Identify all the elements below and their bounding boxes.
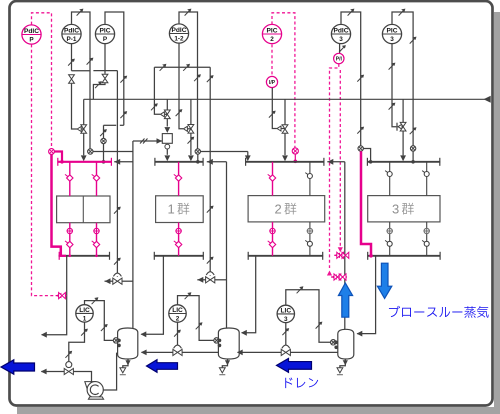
signal PdIC/3 bracket <box>341 12 361 146</box>
signal PIC/P bracket <box>104 12 124 138</box>
magenta steam path left A <box>52 154 61 255</box>
cap b2L <box>247 252 249 260</box>
controller PIC/2 <box>262 24 281 43</box>
hot drop 2 <box>268 162 276 196</box>
slash s24 <box>114 258 121 265</box>
slash s35 <box>282 328 289 335</box>
cold drop P-b <box>92 223 100 256</box>
main line end arrow <box>484 96 491 103</box>
slash s29 <box>65 351 72 358</box>
cap b3L <box>367 252 369 260</box>
drop b-right <box>209 67 211 99</box>
arrow onto header0 <box>81 155 87 161</box>
flash vessel T1 <box>118 328 138 359</box>
controller PIC/P <box>95 24 114 43</box>
arrow bp3 <box>328 159 334 165</box>
drop onto header2 <box>247 152 249 157</box>
label 1-gun <box>168 202 190 217</box>
signal I/P down <box>272 88 277 129</box>
arrow BV2 <box>198 277 204 283</box>
slash s11 <box>269 111 276 118</box>
controller PdIC/3 <box>331 24 350 43</box>
line X3 to header <box>103 144 105 162</box>
bottom header1 <box>154 255 204 257</box>
cold drop 1 <box>174 223 182 256</box>
slash s15 <box>339 45 346 52</box>
out LIC3 <box>285 323 287 346</box>
arrow onto header3 <box>400 155 406 161</box>
svg-text:LIC: LIC <box>79 307 90 314</box>
svg-text:1-2: 1-2 <box>174 36 184 43</box>
line PdIC/1-2 down <box>178 43 180 99</box>
pipe X6 to header3 <box>363 149 370 162</box>
magenta steam path left B <box>54 152 62 162</box>
cap h2L <box>245 158 247 166</box>
drop to header0 <box>83 134 85 156</box>
valve LV3 <box>281 345 290 355</box>
header0 magenta <box>57 161 111 163</box>
arrow into pot <box>157 138 163 144</box>
cap b1L <box>153 252 155 260</box>
controller PIC/3 <box>382 24 401 43</box>
signal PdIC/P bottom dashed <box>32 44 54 295</box>
arrow into v3 <box>357 331 363 337</box>
converter I/P <box>266 76 277 87</box>
orifice X4 <box>195 149 200 154</box>
signal PIC/3 down <box>392 44 396 127</box>
stub g1b <box>188 128 191 130</box>
out LIC1 <box>69 322 85 361</box>
junction j1 <box>102 160 106 164</box>
svg-text:P: P <box>103 36 108 43</box>
riser to vessel2 <box>226 162 228 328</box>
svg-text:LIC: LIC <box>172 307 183 314</box>
blue arrow down <box>377 263 391 298</box>
link BV2 riser <box>215 279 227 281</box>
controller LIC/3 <box>277 305 294 323</box>
positioner X5 magenta <box>292 148 298 154</box>
hot drop 2k <box>305 162 312 196</box>
link BV1 riser <box>122 280 133 282</box>
orifice X6 <box>358 146 363 151</box>
cold drop 3a <box>385 222 392 256</box>
header2 <box>245 161 324 163</box>
converter P/I <box>334 53 344 63</box>
label 2-gun <box>275 202 297 217</box>
valve CV0 <box>81 125 87 134</box>
slash s14 <box>357 127 364 134</box>
arrow into v2b <box>237 350 243 356</box>
line to elbow0 <box>72 84 78 129</box>
flash vessel T2 <box>218 328 239 359</box>
pot outlet circle <box>165 144 170 149</box>
svg-text:2: 2 <box>270 36 274 43</box>
svg-text:PIC: PIC <box>100 27 111 34</box>
svg-text:PdIC: PdIC <box>171 27 186 34</box>
svg-text:3: 3 <box>392 202 399 217</box>
valve CV1b <box>188 125 194 134</box>
steam drop group0 <box>83 99 85 124</box>
junction bh0a <box>69 255 72 258</box>
cap h0R <box>110 158 112 166</box>
sense LIC3 <box>286 290 331 343</box>
blue arrow exit left <box>1 360 35 374</box>
slash s18 <box>389 63 396 70</box>
sense LIC1 <box>85 301 114 341</box>
arrow drain <box>41 369 47 375</box>
valve CV3 <box>400 122 406 131</box>
riser to vessel3 <box>344 162 346 329</box>
slash s22 <box>176 109 183 116</box>
exchanger box 2 <box>248 196 325 222</box>
junction j5 <box>411 160 415 164</box>
slash s9 <box>183 64 190 71</box>
slash s30 <box>185 292 192 299</box>
stub g1a <box>165 113 168 115</box>
signal PIC/3 bracket <box>392 12 413 146</box>
blue arrow up <box>338 283 352 317</box>
exchanger box 3 <box>368 196 440 222</box>
bypass stub v2 <box>207 161 227 163</box>
out LIC2 <box>177 322 179 345</box>
slash s17b <box>410 37 417 44</box>
controller LIC/1 <box>76 305 93 323</box>
slash s4b <box>120 111 127 118</box>
svg-text:PdIC: PdIC <box>24 28 39 35</box>
v2 blowdown <box>222 359 230 368</box>
cold drop 3b <box>422 222 429 256</box>
valve LV1 <box>64 362 73 375</box>
valve BV2 <box>206 272 215 283</box>
slash s6 <box>185 9 192 16</box>
signal PdIC/P-1 bracket <box>72 12 91 149</box>
blue arrow mid <box>147 360 178 373</box>
arrow into v2 <box>241 330 247 336</box>
tee to vessel3 <box>357 256 375 334</box>
slash s31 <box>196 322 203 329</box>
slash s1 <box>77 9 84 16</box>
svg-text:PdIC: PdIC <box>64 27 79 34</box>
stub v3g <box>401 126 404 128</box>
tap T3 <box>331 340 339 350</box>
bar b1 <box>396 123 398 131</box>
cluster bh2 sig arrow <box>338 247 343 252</box>
blue arrow drain <box>277 358 312 372</box>
cluster drain g0 line <box>56 295 67 297</box>
hot drop 3a <box>385 162 392 196</box>
cap b2R <box>322 252 324 260</box>
line pot to header <box>166 149 168 155</box>
drain v3-v2 east <box>291 351 338 353</box>
cap h3L <box>366 158 368 166</box>
sense LIC2 <box>178 296 214 341</box>
drain line west <box>41 371 64 373</box>
arrow into valve3g <box>398 124 402 129</box>
feed line g1b <box>179 99 183 129</box>
steam drop g3 <box>402 99 404 122</box>
drain v2-v1 <box>142 351 173 353</box>
junction j4 <box>369 160 373 164</box>
arrow onto header1b <box>188 155 194 161</box>
label blow-through steam <box>389 306 489 318</box>
line X7 to header <box>412 151 414 161</box>
tee to vessel1 <box>141 256 163 334</box>
bypass stub v1 <box>114 161 133 163</box>
orifice X2 <box>88 149 93 154</box>
slash s2 <box>87 58 94 65</box>
hot drop 1 <box>174 162 182 196</box>
arrow a-h2L <box>245 155 251 161</box>
line to seal pot <box>166 119 168 127</box>
slash s25 <box>207 257 214 264</box>
valve CV1a <box>164 110 170 119</box>
slash s7 <box>194 74 201 81</box>
cap h3R <box>439 158 441 166</box>
svg-text:2: 2 <box>176 316 180 323</box>
junction b3 magenta <box>369 254 373 258</box>
magenta steam path right <box>361 151 371 255</box>
steam drop g2 <box>284 99 286 124</box>
cluster bh2 arrow <box>334 253 340 259</box>
drop to header1b <box>190 133 192 155</box>
svg-text:PIC: PIC <box>387 27 398 34</box>
flash vessel T3 <box>338 329 354 359</box>
stub BV1 <box>105 280 113 282</box>
orifice X7 <box>410 146 415 151</box>
line X5 to header <box>294 154 296 161</box>
hot drop P-b <box>92 162 100 196</box>
bypass stub v3 <box>327 161 345 163</box>
slash s21 <box>188 137 195 144</box>
slash s27 <box>101 324 108 331</box>
cap h2R <box>323 158 325 166</box>
drain v3-v2 west <box>238 351 281 353</box>
cluster mid valve b <box>339 274 346 280</box>
cap h0L <box>57 158 59 166</box>
cluster bh2 valve b <box>342 252 349 258</box>
orifice X3 <box>101 138 106 143</box>
riser to vessel1 <box>132 141 134 328</box>
cluster bh2 line <box>334 254 347 256</box>
slash s16 <box>399 9 406 16</box>
arrow onto header1a <box>164 155 170 161</box>
signal PIC/2 to I/P dashed <box>271 44 273 76</box>
pipe X2 to riser <box>93 151 133 153</box>
header3 <box>367 161 440 163</box>
slash s4c <box>100 129 107 136</box>
valve HV0b <box>102 74 108 83</box>
svg-text:I/P: I/P <box>269 80 276 86</box>
cap b0L <box>58 252 60 260</box>
feed line g1a <box>154 99 160 114</box>
bottom header0 magenta part <box>60 255 66 257</box>
riser feed g1 <box>209 99 211 275</box>
svg-text:1: 1 <box>83 316 87 323</box>
cap h1R <box>202 158 204 166</box>
slash s33 <box>297 286 304 293</box>
slash s20 <box>151 103 158 110</box>
v2 drain open arrow <box>219 368 225 375</box>
slash s17 <box>410 127 417 134</box>
cluster mid arrow <box>331 274 337 280</box>
drop to header3 <box>402 131 404 155</box>
valve CV2 <box>282 125 288 134</box>
v1 drain open arrow <box>120 368 126 375</box>
line PIC/P down <box>104 44 106 74</box>
signal PdIC/P top dashed <box>32 13 52 149</box>
cluster bh2 valve a <box>337 252 344 258</box>
bottom header3 <box>367 255 440 257</box>
tee to vessel2 <box>242 256 256 333</box>
svg-text:1: 1 <box>168 202 175 217</box>
arrow bp2 <box>207 159 213 165</box>
slash s34 <box>316 322 323 329</box>
svg-text:3: 3 <box>339 36 343 43</box>
link PdIC/3 to P/I <box>339 44 341 53</box>
svg-text:P-1: P-1 <box>67 36 77 43</box>
arrow bp1 <box>114 159 120 165</box>
elbow to main <box>93 83 105 99</box>
slash s28 <box>81 329 88 336</box>
arrow g1b <box>183 126 187 131</box>
arrow BV1 <box>105 278 111 284</box>
riser feed g0 <box>116 71 118 277</box>
header1 <box>155 161 204 163</box>
signal lower bracket <box>154 66 210 68</box>
controller PdIC/P <box>22 25 41 44</box>
slash s32 <box>174 330 181 337</box>
orifice X1 magenta <box>49 149 55 155</box>
hot drop P-a <box>65 162 73 196</box>
controller LIC/2 <box>169 305 186 323</box>
stub to valve0 <box>82 128 84 130</box>
controller PdIC/1-2 <box>169 24 188 43</box>
signal PdIC/1-2 bracket <box>179 12 198 149</box>
drain line to pump <box>74 372 92 382</box>
cluster mid sig arrow <box>327 271 332 276</box>
sample line y141 <box>133 140 162 142</box>
svg-text:PdIC: PdIC <box>333 27 348 34</box>
stub v2g <box>281 128 285 130</box>
signal P/I dashed A <box>330 64 339 268</box>
arrow g1a <box>160 112 164 117</box>
svg-text:PIC: PIC <box>267 27 278 34</box>
slash s5 <box>95 81 102 88</box>
line PdIC/P-1 down <box>71 44 73 71</box>
cold drop P-a <box>65 223 73 256</box>
controller PdIC/P-1 <box>62 24 81 43</box>
cap b3R <box>439 252 441 260</box>
drop b-left <box>153 67 155 99</box>
svg-text:P: P <box>29 37 34 44</box>
junction bh0b <box>95 255 98 258</box>
arrow onto header2 <box>282 155 288 161</box>
line X4 to header <box>197 154 199 161</box>
cluster g0 valve <box>59 293 66 299</box>
cluster g0 arrow <box>56 293 62 299</box>
v3 drain open arrow <box>337 368 343 375</box>
pipe X4 right <box>201 151 248 153</box>
cluster mid valve a <box>334 274 341 280</box>
label 3-gun <box>392 202 414 217</box>
tap T2 <box>214 338 222 348</box>
cap b0R <box>109 252 111 260</box>
junction h0 <box>60 160 64 164</box>
junction j3 <box>294 160 298 164</box>
slash s25b <box>207 206 214 213</box>
valve BV1 <box>113 273 122 284</box>
tie line2 <box>93 70 117 72</box>
slash s12 <box>348 9 355 16</box>
breaker <box>140 139 148 144</box>
suction v1 to pump <box>103 353 117 390</box>
exchanger box P <box>57 196 110 223</box>
arrow sp1 <box>164 127 170 133</box>
slash s4 <box>120 76 127 83</box>
slash s23 <box>114 207 121 214</box>
valve LV2 <box>173 345 182 355</box>
stub BV2 <box>197 279 205 281</box>
seal pot box <box>162 134 172 144</box>
main steam line <box>84 98 488 100</box>
slash s13 <box>357 75 364 82</box>
arrow into valve2g <box>277 126 281 131</box>
bottom header2 <box>248 255 323 257</box>
drain v2-v1 east <box>182 351 218 353</box>
arrow g0 out <box>41 332 47 338</box>
steam drop g1a <box>166 99 168 109</box>
cap b1R <box>202 252 204 260</box>
arrow into v1b <box>141 350 147 356</box>
svg-text:3: 3 <box>390 36 394 43</box>
arrow into valve0 <box>77 127 81 132</box>
cold drop 2k <box>305 222 312 256</box>
slash s19 <box>389 103 396 110</box>
signal PIC/2 top dashed <box>272 13 295 148</box>
slash s8 <box>160 64 167 71</box>
tap T1 <box>113 338 120 348</box>
cluster mid line <box>331 276 347 278</box>
svg-text:3: 3 <box>284 316 288 323</box>
v3 blowdown <box>340 359 348 368</box>
tie line <box>72 70 91 72</box>
slash s26 <box>92 297 99 304</box>
slash s10 <box>207 75 214 82</box>
steam drop g1b <box>190 99 192 124</box>
tee header0 down <box>42 256 67 335</box>
box P divider <box>82 196 84 223</box>
hot drop 3b <box>422 162 429 196</box>
pump P1 <box>85 382 104 400</box>
v1 blowdown <box>123 359 131 368</box>
valve HV0a <box>69 75 75 84</box>
cap h1L <box>154 158 156 166</box>
bottom header0 <box>59 255 110 257</box>
junction j2 <box>196 160 200 164</box>
svg-text:2: 2 <box>275 202 282 217</box>
cold drop 2 <box>268 222 276 256</box>
drop to header2 <box>284 134 286 155</box>
signal P/I dashed B <box>339 70 341 248</box>
exchanger box 1 <box>156 196 204 223</box>
arrow into v1 <box>141 331 147 337</box>
svg-text:P/I: P/I <box>336 57 343 63</box>
label drain <box>285 378 318 389</box>
svg-text:LIC: LIC <box>280 307 291 314</box>
slash s3 <box>68 59 75 66</box>
